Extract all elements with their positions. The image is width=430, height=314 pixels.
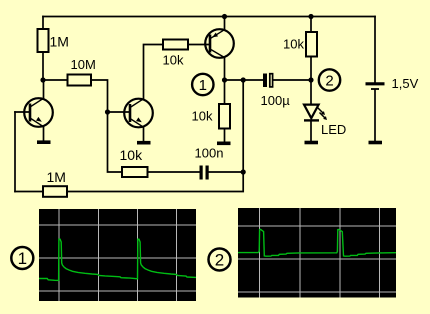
junction riser top <box>241 77 246 82</box>
wire R7 to C2 <box>148 171 200 173</box>
wire node A to R2 <box>43 79 68 81</box>
resistor R5 10k <box>306 32 317 57</box>
wire R1 bottom lead to node A <box>42 52 44 80</box>
wire C1 to node 2 <box>273 79 311 81</box>
svg-text:1,5V: 1,5V <box>392 76 419 91</box>
ground LED <box>305 141 319 145</box>
wire Q3 emitter from top rail <box>224 17 226 30</box>
oscilloscope screen 1 <box>39 209 196 301</box>
junction node A <box>40 77 45 82</box>
svg-text:2: 2 <box>325 73 333 90</box>
transistor Q3 PNP <box>205 29 234 58</box>
LED D1 <box>304 105 327 121</box>
transistor Q1 <box>24 98 53 127</box>
wire R5 top lead <box>310 17 312 33</box>
scope 1 label circle <box>11 247 33 269</box>
node 2 annotation circle <box>319 69 340 90</box>
svg-text:100µ: 100µ <box>261 93 291 108</box>
resistor R2 10M <box>68 75 92 86</box>
ground Q1 emitter <box>37 140 51 144</box>
wire top rail <box>43 16 375 18</box>
junction node 2 top rail <box>308 14 313 19</box>
wire R6 right lead bottom rail <box>67 80 243 192</box>
junction Q3 emitter top rail <box>222 14 227 19</box>
wire node B down to R7 <box>108 112 123 172</box>
junction node 1 <box>222 77 227 82</box>
svg-text:1: 1 <box>199 77 207 94</box>
wire R1 top lead <box>42 17 44 30</box>
wire node 2 down to LED <box>310 80 312 105</box>
svg-text:2: 2 <box>215 251 224 270</box>
wire C2 to vertical riser <box>209 171 244 173</box>
svg-text:10M: 10M <box>71 57 96 72</box>
node 1 annotation circle <box>192 74 213 95</box>
wire Q2 collector riser <box>144 45 164 99</box>
ground R4 <box>217 142 231 146</box>
svg-text:LED: LED <box>321 122 346 137</box>
svg-text:100n: 100n <box>195 146 224 161</box>
junction node B <box>105 109 110 114</box>
ground Q2 emitter <box>137 141 151 145</box>
wire Q1 base lead <box>15 111 30 113</box>
capacitor C2 100n <box>200 166 209 180</box>
scope 2 label circle <box>209 249 231 271</box>
wire LED cathode to ground <box>310 121 312 141</box>
svg-text:10k: 10k <box>163 53 184 68</box>
wire R5 bottom lead <box>310 57 312 81</box>
wire Q1 emitter down to ground <box>43 127 45 141</box>
svg-text:10k: 10k <box>192 109 213 124</box>
resistor R6 1M <box>43 186 67 197</box>
wire Q2 base lead <box>108 111 131 113</box>
svg-text:1: 1 <box>18 249 27 268</box>
oscilloscope screen 2 <box>238 208 396 298</box>
wire battery top lead <box>374 17 376 83</box>
junction riser bottom <box>241 169 246 174</box>
capacitor C1 100u polarized <box>263 74 273 88</box>
svg-text:10k: 10k <box>120 147 144 163</box>
wire node 1 down to R4 <box>224 80 226 104</box>
ground battery <box>369 141 383 145</box>
resistor R7 10k <box>122 167 148 177</box>
transistor Q2 <box>124 99 153 128</box>
wire battery bottom lead <box>374 90 376 141</box>
wire R3 to Q3 base <box>188 44 210 46</box>
resistor R1 1M <box>38 29 49 52</box>
svg-text:1M: 1M <box>47 169 66 185</box>
junction node 2 <box>308 77 313 82</box>
wire node 1 row to C1 <box>225 79 264 81</box>
svg-text:1M: 1M <box>50 34 69 50</box>
resistor R3 10k <box>163 40 188 50</box>
wire Q3 collector to node 1 <box>224 58 226 81</box>
wire Q1 feedback left vertical <box>14 112 16 192</box>
wire R4 to ground <box>224 129 226 143</box>
battery B1 1.5V <box>366 84 385 89</box>
wire Q1 collector up to node A <box>43 80 45 98</box>
wire R2 right lead <box>91 80 108 112</box>
scope 2 trace <box>238 229 396 256</box>
scope 1 trace <box>39 239 196 280</box>
wire Q2 emitter down to ground <box>143 127 145 141</box>
wire bottom rail <box>15 191 43 193</box>
svg-text:10k: 10k <box>283 37 304 52</box>
resistor R4 10k <box>219 104 230 129</box>
